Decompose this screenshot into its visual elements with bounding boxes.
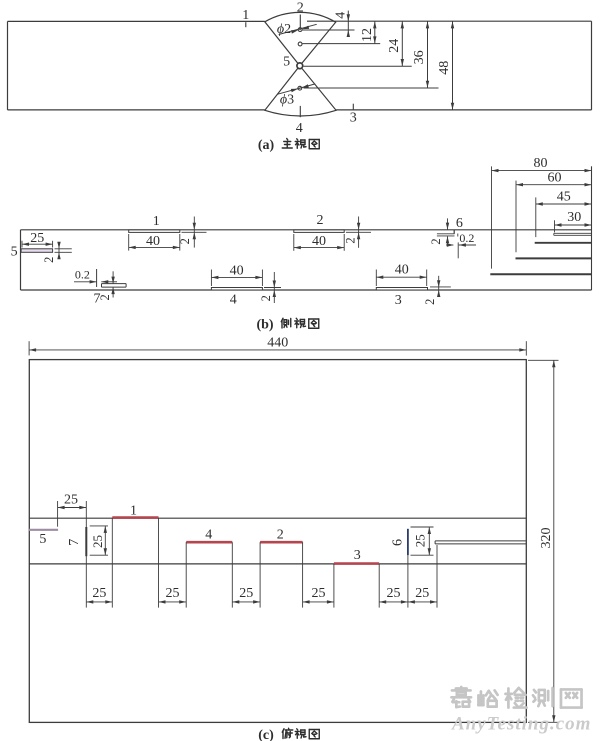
dim 80 (b) [491, 166, 493, 268]
dim 40 slot3 (b) [375, 270, 377, 287]
svg-text:48: 48 [437, 61, 452, 75]
dim 25 left (c) [57, 501, 59, 527]
tick and label 2 (a) [299, 15, 301, 28]
svg-text:2: 2 [277, 527, 284, 542]
step line 60 (b) [516, 257, 592, 259]
leader line waist hole [304, 65, 412, 67]
svg-text:6: 6 [456, 216, 463, 231]
view (c) plate outline [29, 360, 526, 723]
svg-text:40: 40 [230, 264, 244, 279]
weld fan top (a) [265, 12, 336, 65]
svg-text:4: 4 [205, 527, 212, 542]
svg-text:45: 45 [557, 189, 571, 204]
svg-text:0.2: 0.2 [75, 267, 90, 281]
svg-text:1: 1 [130, 504, 137, 519]
svg-text:5: 5 [283, 55, 290, 70]
dim 2 slot6 (b) [447, 218, 449, 229]
dim 40 slot4 (b) [210, 270, 212, 287]
slot 7 (b) [102, 283, 127, 285]
dim 12 (a) [374, 21, 376, 43]
hole 2 (a) [298, 42, 302, 46]
svg-text:36: 36 [412, 50, 427, 64]
svg-text:2: 2 [297, 1, 304, 16]
svg-text:0.2: 0.2 [459, 231, 474, 245]
dim 2 slot7 (b) [112, 271, 114, 283]
step line 80 (b) [490, 273, 591, 275]
svg-text:4: 4 [230, 293, 237, 308]
svg-text:25: 25 [92, 586, 106, 601]
svg-text:25: 25 [90, 535, 105, 548]
slot 6 channel (c) [435, 540, 526, 542]
svg-text:40: 40 [146, 234, 160, 249]
svg-text:320: 320 [539, 528, 554, 549]
weld band bottom line (c) [29, 563, 526, 565]
svg-text:25: 25 [415, 586, 429, 601]
hole 4 (a) [298, 86, 302, 90]
dim 25 slot5 (b) [21, 241, 23, 248]
dim 2 slot1 (b) [182, 231, 207, 233]
slot 6 notch (b) [453, 230, 455, 234]
slot 1 (c) [112, 516, 158, 519]
svg-text:25: 25 [239, 586, 253, 601]
tick and label 3 (a) [352, 104, 354, 110]
slot 3 (c) [334, 562, 379, 565]
svg-text:2: 2 [98, 294, 112, 300]
svg-text:25: 25 [387, 586, 401, 601]
svg-text:2: 2 [317, 213, 324, 228]
svg-text:ϕ2: ϕ2 [277, 22, 291, 37]
svg-text:25: 25 [30, 231, 44, 246]
dim 36 (a) [427, 21, 429, 87]
svg-text:25: 25 [312, 586, 326, 601]
dim 40 slot1 (b) [128, 234, 130, 251]
svg-text:AnyTesting.com: AnyTesting.com [451, 714, 591, 735]
svg-text:(c): (c) [258, 728, 274, 741]
dim 4 (a) [347, 11, 349, 35]
dim 2 slot3 (b) [430, 286, 451, 288]
view (b) band outline [21, 229, 592, 231]
phi2 label and leader (a) [279, 24, 317, 34]
slot 2 (c) [260, 541, 303, 544]
svg-text:30: 30 [567, 210, 581, 225]
svg-text:4: 4 [333, 12, 348, 19]
svg-text:7: 7 [67, 539, 82, 546]
slot 6 vertical mark (c) [407, 529, 409, 555]
step line 45 (b) [535, 242, 592, 244]
dim 48 (a) [452, 21, 454, 109]
phi3 label and leader (a) [277, 84, 315, 94]
view (a) bar outline [8, 20, 265, 22]
svg-text:2: 2 [42, 257, 56, 263]
svg-text:25: 25 [64, 493, 78, 508]
svg-text:6: 6 [391, 539, 406, 546]
svg-text:2: 2 [429, 238, 443, 244]
dim 25 slot6 (c) [411, 526, 434, 528]
dim 45 (b) [535, 197, 537, 237]
dim 2 slot2 (b) [346, 231, 371, 233]
svg-text:(a): (a) [258, 138, 275, 153]
dim 440 (c) [28, 341, 30, 355]
svg-text:25: 25 [166, 586, 180, 601]
slot 5 (c) [29, 529, 58, 531]
bottom extension lines (c) [111, 518, 113, 608]
bottom dim row (c) [86, 601, 112, 603]
svg-text:60: 60 [548, 170, 562, 185]
slot 2 (b) [294, 230, 344, 233]
svg-text:12: 12 [360, 28, 375, 42]
svg-text:3: 3 [354, 548, 361, 563]
watermark chinese [451, 687, 471, 707]
svg-text:(b): (b) [256, 318, 273, 333]
slot 1 (b) [129, 230, 180, 233]
svg-text:2: 2 [343, 237, 357, 243]
dim 30 (b) [554, 220, 556, 232]
slot 4 (b) [211, 288, 262, 291]
extension line x86 (c) [85, 501, 87, 608]
svg-text:4: 4 [296, 121, 303, 136]
svg-text:40: 40 [395, 263, 409, 278]
tick and label 4 (a) [299, 106, 301, 117]
svg-text:2: 2 [423, 299, 437, 305]
slot 3 (b) [376, 288, 427, 291]
svg-text:3: 3 [350, 111, 357, 126]
dim 60 (b) [515, 181, 517, 253]
svg-text:40: 40 [312, 234, 326, 249]
dim 24 (a) [401, 21, 403, 66]
dim 25 slot7 (c) [90, 525, 108, 527]
dim 2 slot5 (b) [55, 248, 72, 250]
svg-text:24: 24 [387, 39, 402, 53]
slot 4 (c) [186, 541, 232, 544]
step line 30 (b) [554, 232, 592, 234]
svg-text:5: 5 [39, 532, 46, 547]
slot 7 (c) [85, 527, 87, 556]
slot 5 (b) [21, 249, 52, 253]
svg-text:25: 25 [413, 534, 428, 547]
svg-text:1: 1 [242, 8, 249, 23]
leader line hole4 [304, 87, 439, 89]
waist hole 5 (a) [297, 63, 303, 69]
weld fan bottom (a) [265, 66, 336, 116]
svg-text:2: 2 [178, 238, 192, 244]
svg-text:ϕ3: ϕ3 [280, 93, 294, 108]
leader line hole2 [303, 43, 381, 45]
dim 40 slot2 (b) [293, 234, 295, 251]
svg-text:1: 1 [153, 214, 160, 229]
dim 2 slot4 (b) [264, 287, 281, 289]
svg-text:3: 3 [395, 293, 402, 308]
svg-text:5: 5 [11, 245, 18, 260]
dim 0.2 slot6 (b) [457, 234, 459, 237]
tick and label 1 (a) [245, 22, 247, 27]
svg-text:80: 80 [534, 156, 548, 171]
svg-text:2: 2 [259, 295, 273, 301]
weld band top line (c) [29, 517, 526, 519]
svg-text:440: 440 [267, 336, 288, 351]
dim 320 (c) [528, 359, 559, 361]
hole 1 (a) [298, 28, 302, 32]
leader line hole1 [303, 29, 355, 31]
